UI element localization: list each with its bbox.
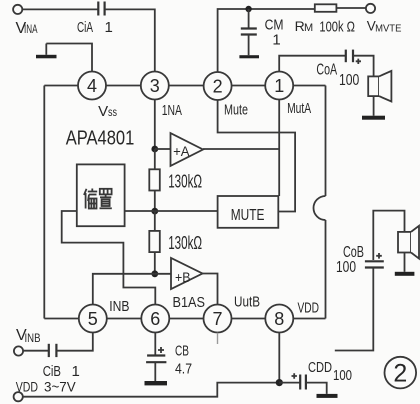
label CoA 100 <box>316 62 359 90</box>
pin 8 <box>265 305 293 333</box>
terminal VMVTE <box>366 4 375 13</box>
wire CoA to speaker A <box>353 56 373 77</box>
svg-text:+A: +A <box>173 143 190 159</box>
wire CDD to ground <box>306 383 327 394</box>
svg-text:INA: INA <box>24 24 38 36</box>
terminal VINA <box>13 5 22 14</box>
svg-text:3~7V: 3~7V <box>44 378 76 394</box>
pin 2 <box>204 72 232 100</box>
svg-text:1NA: 1NA <box>162 102 182 119</box>
terminal VINB <box>14 346 23 355</box>
glyph 偏 <box>84 189 97 209</box>
label VINA <box>16 20 38 37</box>
ground (input A) <box>36 44 57 59</box>
svg-text:V: V <box>98 103 108 120</box>
svg-text:100: 100 <box>336 259 356 276</box>
speaker A <box>368 71 391 102</box>
svg-text:MutA: MutA <box>287 100 311 117</box>
svg-text:100: 100 <box>339 72 360 89</box>
terminal VDD supply <box>14 392 23 401</box>
wire speaker B to ground <box>404 253 406 272</box>
svg-text:ss: ss <box>108 107 117 119</box>
label VDD 3~7V <box>16 378 77 394</box>
wire ground to pin4 <box>46 44 92 72</box>
ground (speaker A) <box>362 116 385 120</box>
svg-text:VDD: VDD <box>16 378 38 394</box>
svg-text:UutB: UutB <box>234 294 260 311</box>
resistor R1 130k <box>149 149 160 211</box>
MUTE block <box>218 196 279 228</box>
svg-text:6: 6 <box>150 309 160 329</box>
svg-text:1: 1 <box>274 76 284 96</box>
svg-text:VDD: VDD <box>298 300 320 317</box>
IC APA4801 box <box>44 86 325 319</box>
op-amp +B <box>171 258 203 289</box>
svg-text:CoA: CoA <box>316 62 337 79</box>
op-amp +A <box>171 133 204 166</box>
wire CoB branch top <box>373 211 404 260</box>
svg-text:1: 1 <box>272 32 280 49</box>
svg-text:B1AS: B1AS <box>173 294 206 311</box>
pin 5 <box>79 305 107 333</box>
pin 4 <box>78 72 106 100</box>
svg-text:100k Ω: 100k Ω <box>319 19 355 36</box>
svg-text:4.7: 4.7 <box>175 361 192 378</box>
bias block 偏置 <box>77 164 125 226</box>
junction dot node CM <box>245 6 251 12</box>
pin 6 <box>141 305 169 333</box>
capacitor CiA <box>98 2 104 16</box>
wire pin5 riser to node C <box>93 274 155 305</box>
wire op-amp A output to pin1 net <box>203 148 279 150</box>
pin 3 <box>141 72 169 100</box>
svg-text:INB: INB <box>109 298 129 315</box>
wire CiB to pin5 <box>57 333 93 351</box>
wire node B to MUTE block <box>155 210 218 212</box>
label CDD 100 <box>308 359 352 384</box>
capacitor CiB <box>49 344 57 357</box>
label VINB <box>16 327 41 345</box>
svg-text:4: 4 <box>87 76 97 96</box>
svg-text:MUTE: MUTE <box>231 207 265 224</box>
resistor R2 130k <box>149 211 160 274</box>
capacitor CB <box>146 333 166 381</box>
wire pin3 to node A <box>154 100 156 150</box>
wire bias to node B <box>125 210 155 212</box>
svg-text:APA4801: APA4801 <box>66 127 135 150</box>
wire CiA to pin3 riser <box>105 9 155 71</box>
speaker B <box>398 226 419 259</box>
IC notch <box>314 196 326 220</box>
pin 1 <box>265 72 293 100</box>
ground (speaker B) <box>395 272 415 276</box>
label Vss <box>98 103 117 120</box>
svg-text:2: 2 <box>213 77 223 97</box>
junction node VDD <box>276 379 283 386</box>
wire pin1 down to MUTE corner <box>278 100 280 197</box>
resistor RM <box>315 4 337 12</box>
svg-text:+B: +B <box>175 269 191 285</box>
svg-text:CB: CB <box>175 342 189 359</box>
wire CoB bottom <box>335 268 374 351</box>
wire op-amp B output to pin7 <box>203 274 218 305</box>
svg-text:100: 100 <box>333 367 352 384</box>
pin 7 stub <box>217 333 219 344</box>
svg-text:130kΩ: 130kΩ <box>168 172 202 192</box>
wire node C to op-amp B <box>155 273 171 275</box>
svg-text:CDD: CDD <box>308 359 332 376</box>
svg-text:1: 1 <box>105 19 113 36</box>
figure number 2 <box>385 357 417 389</box>
label CB 4.7 <box>175 342 192 377</box>
svg-text:3: 3 <box>150 76 160 96</box>
label VMVTE <box>367 18 402 34</box>
svg-text:INB: INB <box>25 333 41 345</box>
glyph 置 <box>100 189 112 209</box>
capacitor CM <box>241 9 257 55</box>
capacitor CDD <box>279 373 306 389</box>
wire pin2 mute path <box>218 100 296 212</box>
label CiB 1 <box>43 363 80 380</box>
label CoB 100 <box>336 244 364 276</box>
svg-text:CiA: CiA <box>77 19 93 36</box>
wire VINB to CiB <box>23 350 48 352</box>
label CM 1 <box>265 16 284 48</box>
svg-text:130kΩ: 130kΩ <box>168 233 202 253</box>
svg-text:8: 8 <box>274 309 284 329</box>
svg-text:Mute: Mute <box>224 102 248 119</box>
wire speaker A to ground <box>373 96 375 116</box>
ground (CB) <box>145 381 168 385</box>
wire node A to op-amp A <box>155 148 171 150</box>
label CiA 1 <box>77 19 113 36</box>
svg-text:5: 5 <box>88 309 98 329</box>
ground (CDD) <box>317 394 338 398</box>
wire VDD rail <box>23 383 280 397</box>
junction node B <box>151 208 158 215</box>
junction node C <box>151 270 158 277</box>
svg-text:M: M <box>304 22 313 34</box>
svg-text:7: 7 <box>212 309 222 329</box>
wire pin8 down <box>278 333 280 383</box>
label RM <box>295 18 314 34</box>
wire pin2 riser to top rail <box>218 9 315 72</box>
junction node A <box>151 146 158 153</box>
wire RM to terminal <box>336 7 366 9</box>
wire VINA to CiA <box>22 8 98 10</box>
wire bias left to pin6 <box>62 211 156 305</box>
pin 7 <box>204 305 232 333</box>
capacitor CoA <box>346 50 361 64</box>
wire pin1 to CoA <box>279 56 345 72</box>
svg-text:MVTE: MVTE <box>375 23 401 35</box>
svg-text:2: 2 <box>393 360 407 388</box>
ground (CM) <box>239 55 259 58</box>
capacitor CoB <box>365 253 384 268</box>
